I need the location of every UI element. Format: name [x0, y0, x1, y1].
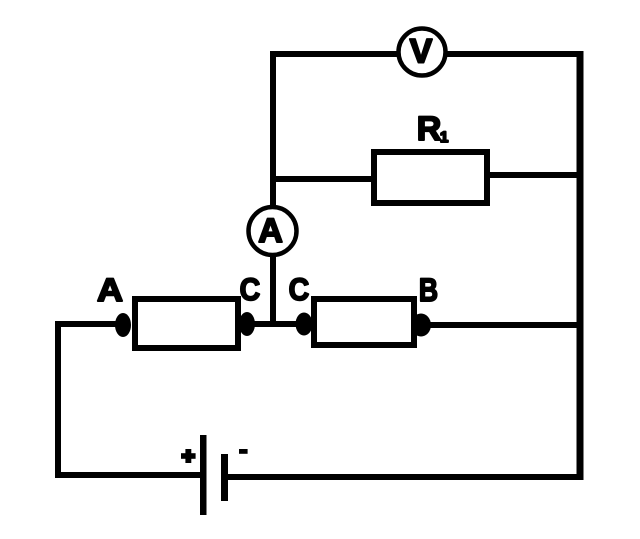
- svg-text:A: A: [258, 212, 283, 250]
- label C left: [240, 272, 261, 307]
- svg-text:C: C: [240, 272, 261, 307]
- svg-text:B: B: [419, 272, 438, 308]
- label +: [181, 449, 196, 463]
- wire: junction horizontal between C dots: [240, 321, 306, 327]
- label A: [97, 272, 123, 308]
- wire: R1 left lead: [273, 176, 374, 182]
- wire: node B to right vertical: [421, 322, 580, 328]
- node B junction dot: [411, 314, 431, 337]
- resistor C-B (right rheostat box): [314, 299, 414, 345]
- wire: left lead to node A: [55, 321, 123, 327]
- wire: left vertical from node A down: [55, 321, 61, 478]
- svg-text:1: 1: [440, 129, 448, 146]
- wire: bottom left to battery: [55, 472, 203, 478]
- node C junction dot (left): [239, 312, 255, 336]
- label C right: [289, 272, 310, 307]
- battery negative plate: [221, 454, 228, 501]
- wire: right vertical main: [577, 51, 584, 480]
- ammeter A: [249, 207, 297, 255]
- wire: top horizontal through voltmeter: [270, 51, 583, 57]
- resistor R1: [374, 152, 487, 203]
- label -: [239, 449, 248, 454]
- wire: battery to bottom right: [228, 474, 580, 480]
- wire: R1 right lead: [487, 172, 580, 178]
- label R1: [417, 110, 449, 148]
- voltmeter V: [399, 29, 446, 76]
- svg-text:R: R: [417, 110, 442, 148]
- label B: [419, 272, 438, 308]
- resistor A-C (left rheostat box): [135, 299, 238, 348]
- svg-text:A: A: [97, 272, 123, 308]
- battery positive plate: [200, 435, 207, 515]
- node A junction dot: [115, 313, 131, 337]
- wire: top-left vertical from voltmeter loop corner down to ammeter: [270, 51, 276, 327]
- node C junction dot (right): [296, 313, 313, 336]
- svg-text:V: V: [410, 33, 433, 71]
- svg-text:C: C: [289, 272, 310, 307]
